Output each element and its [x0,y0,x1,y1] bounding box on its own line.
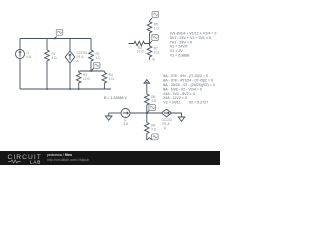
svg-text:B: B [153,58,155,62]
wire CCCS1 branch lower [69,63,71,89]
svg-text:24A - 3V2 - 8V2 = 0: 24A - 3V2 - 8V2 = 0 [163,92,194,96]
svg-text:2 Ω: 2 Ω [151,128,157,132]
svg-text:8A - I7/8 - 4*Ix - (I7-I3)/2 =: 8A - I7/8 - 4*Ix - (I7-I3)/2 = 0 [163,74,208,78]
svg-text:7V1 - 24V = 0: 7V1 - 24V = 0 [170,40,192,44]
dependent source CCCS2 [162,109,173,130]
wire subnet left lower [78,83,80,89]
resistor R1 [45,50,57,62]
wire ground to source [109,112,121,114]
svg-text:LAB: LAB [30,159,41,164]
wire R2 to subnet [90,62,92,71]
svg-text:4 Ω: 4 Ω [151,99,157,103]
svg-text:4 Ω: 4 Ω [52,56,58,60]
resistor R5 [147,22,159,34]
wire subnet top rail [79,70,105,72]
svg-text:1 Ω: 1 Ω [96,56,102,60]
wire top rail of left circuit [20,38,91,40]
wire subnet right lower [103,83,105,89]
svg-text:12 Ω: 12 Ω [83,77,90,81]
dependent source CCCS1 [65,51,87,63]
footer logo CIRCUIT [8,154,42,164]
node junction R3 bottom [78,88,80,90]
wire left branch upper [19,39,21,50]
probe scope top [54,29,63,39]
wire R1 branch upper [46,39,48,51]
probe scope node [147,105,156,113]
wire source to node [130,112,162,114]
ground G2 [178,117,185,121]
svg-text:V1 = 24V/7: V1 = 24V/7 [170,45,188,49]
svg-text:V2 = 5.2727: V2 = 5.2727 [189,101,208,105]
svg-text:24A - 11V2 = 0: 24A - 11V2 = 0 [163,96,187,100]
current source I1 [16,50,32,60]
svg-text:V1 = 6.8888: V1 = 6.8888 [170,54,189,58]
ground G1 [105,113,112,120]
equation block 1 [170,32,216,58]
svg-text:http://circuitlab.com/c/fqtqub: http://circuitlab.com/c/fqtqub [47,158,89,162]
footer text [47,153,89,162]
current source I2 [121,109,130,127]
svg-text:1 Ω: 1 Ω [154,27,160,31]
wire tr chain top [149,21,151,22]
svg-text:V1 = 2V: V1 = 2V [170,49,183,53]
probe scope tr1 [150,11,159,20]
svg-text:6 A: 6 A [124,122,129,126]
svg-text:B = 1.53846 V: B = 1.53846 V [104,96,127,100]
svg-text:6 A: 6 A [27,55,32,59]
probe scope bottom [147,134,158,140]
wire subnet right upper [103,71,105,73]
node junction center [146,112,148,114]
resistor R4 [102,73,114,84]
svg-text:8A - I7/8 - 4*I7/24 - (I7-I3)/: 8A - I7/8 - 4*I7/24 - (I7-I3)/2 = 0 [163,79,213,83]
wire left branch lower [19,59,21,90]
svg-text:A: A [77,59,80,63]
svg-text:A: A [164,126,167,130]
svg-text:10 Ω: 10 Ω [137,50,144,54]
resistor R6 [145,94,157,106]
wire R2 branch upper [90,39,92,51]
svg-text:3V1 - 24V + V1 + 3V1 = 0: 3V1 - 24V + V1 + 3V1 = 0 [170,36,211,40]
wire bottom rail of left circuit [20,88,111,90]
svg-text:8A - 10/8 - V2 - V2/4 = 0: 8A - 10/8 - V2 - V2/4 = 0 [163,87,202,91]
svg-text:V2 = 24/11: V2 = 24/11 [163,101,180,105]
wire R1 branch lower [46,62,48,89]
probe scope mid [90,62,100,72]
wire R6 to node [146,106,148,113]
svg-text:8A - 25/24 - V2 - (25/24)(V2): 8A - 25/24 - V2 - (25/24)(V2) = 0 [163,83,214,87]
resistor R8 horizontal [129,41,150,53]
svg-text:4 Ω: 4 Ω [109,77,115,81]
equation block 2 [163,74,214,104]
svg-text:pedrosva / files: pedrosva / files [47,153,72,157]
footer bar [0,151,220,165]
resistor R9 below node [145,113,157,140]
wire CCCS1 branch upper [69,39,71,52]
probe scope tr2 [149,35,159,45]
resistor R3 [76,73,90,84]
node junction R1 bottom [46,88,48,90]
resistor R7 [147,44,159,61]
wire tr chain mid [149,34,151,44]
node flag arrow [144,80,150,94]
node junction CCCS1 bottom [69,88,71,90]
resistor R2 [89,50,101,62]
svg-text:(V1-8V)/4 + V1/12 + V1/4 = 0: (V1-8V)/4 + V1/12 + V1/4 = 0 [170,32,216,36]
svg-text:2 Ω: 2 Ω [154,51,160,55]
wire CCCS2 to ground [172,113,182,117]
wire subnet left upper [78,71,80,73]
